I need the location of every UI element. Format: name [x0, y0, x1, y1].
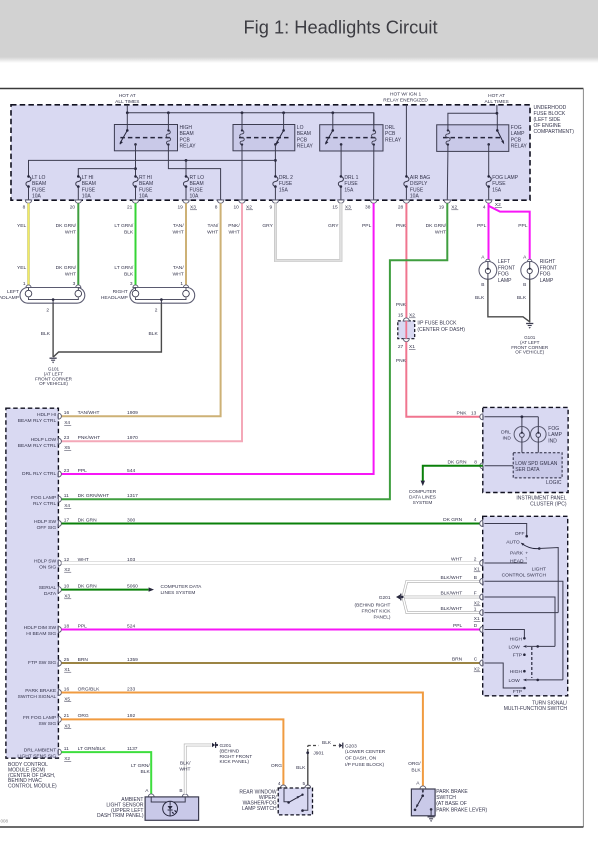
- right front fog lamp LP4: [521, 255, 557, 288]
- svg-text:008: 008: [1, 819, 9, 824]
- svg-text:DK GRN/: DK GRN/: [56, 223, 77, 229]
- switch label: [504, 700, 568, 712]
- svg-text:BLK/WHT: BLK/WHT: [440, 606, 462, 612]
- svg-text:LT GRN/: LT GRN/: [131, 763, 150, 769]
- svg-text:9: 9: [270, 205, 273, 211]
- wire BLK: right fog lamp to G101: [529, 279, 531, 322]
- svg-text:PPL: PPL: [78, 623, 88, 629]
- svg-text:YEL: YEL: [17, 265, 27, 271]
- light control switch internals: [484, 524, 558, 613]
- svg-text:PARK: PARK: [510, 550, 524, 556]
- svg-text:FOG LAMP: FOG LAMP: [31, 495, 56, 501]
- wire: IPC pin8 to logic box: [485, 465, 514, 467]
- svg-text:544: 544: [127, 468, 135, 474]
- svg-text:MULTI-FUNCTION SWITCH: MULTI-FUNCTION SWITCH: [504, 706, 568, 712]
- label BLK (right headlamp): [149, 331, 159, 337]
- I/P fuse block pin labels: [398, 313, 416, 351]
- left headlamp label: [0, 289, 19, 301]
- fuse F-DRL2 FUSE 15A: [273, 175, 293, 200]
- svg-text:DASH TRIM PANEL): DASH TRIM PANEL): [97, 813, 144, 819]
- svg-text:LOGIC: LOGIC: [546, 480, 562, 486]
- svg-text:YEL: YEL: [17, 223, 27, 229]
- svg-text:PPL: PPL: [453, 623, 463, 629]
- svg-text:25: 25: [64, 657, 70, 663]
- wire BLK: rear switch pin 5 up to J901: [307, 746, 309, 786]
- wire BLK/WHT: sensor pin B to G201: [185, 745, 211, 794]
- G203 text: [345, 743, 386, 768]
- junction J901: [306, 751, 324, 757]
- svg-text:HEADLAMP: HEADLAMP: [0, 295, 19, 301]
- fuse block pin sockets: [25, 200, 492, 203]
- svg-text:FOG: FOG: [498, 272, 509, 278]
- svg-text:FOG LAMP: FOG LAMP: [492, 175, 519, 181]
- wire BLK: right headlamp pin2 to G101: [53, 303, 161, 357]
- BCM pin sockets and labels: [17, 410, 138, 762]
- svg-text:10: 10: [64, 583, 70, 589]
- svg-text:G201: G201: [379, 595, 391, 601]
- svg-text:BEAM: BEAM: [190, 181, 204, 187]
- bus wire: hot-at-all-times bus (left): [126, 105, 374, 130]
- rear window wiper/washer/fog lamp switch S3 (dashed box): [278, 781, 313, 815]
- svg-text:2: 2: [155, 308, 158, 314]
- svg-text:HIGH: HIGH: [180, 125, 193, 131]
- svg-text:1317: 1317: [127, 493, 138, 499]
- svg-text:LEFT: LEFT: [7, 289, 19, 295]
- wire: fog contact to fog lamp fuse: [488, 151, 490, 176]
- svg-text:DRL AMBIENT: DRL AMBIENT: [24, 748, 56, 754]
- turn signal / multi-function switch S1 (dashed box): [483, 516, 568, 696]
- svg-text:DRL: DRL: [385, 125, 395, 131]
- svg-text:HI BEAM SIG: HI BEAM SIG: [26, 631, 56, 637]
- svg-text:10A: 10A: [32, 194, 42, 200]
- svg-text:4: 4: [474, 517, 477, 523]
- svg-text:GRY: GRY: [262, 223, 273, 229]
- svg-text:HEADLAMP: HEADLAMP: [101, 295, 128, 301]
- wire: DRL relay contact to DRL 1 fuse: [340, 151, 342, 176]
- svg-text:LIGHT: LIGHT: [532, 567, 546, 573]
- wire W5 TAN/WHT: pin 8 to BCM pin 16 (HDLP HI BEAM RLY CTRL): [62, 203, 221, 416]
- svg-text:4: 4: [278, 781, 281, 787]
- svg-text:FUSE: FUSE: [32, 187, 46, 193]
- svg-text:HOT AT: HOT AT: [488, 93, 505, 99]
- wire: high-beam coil to pin 8: [168, 151, 220, 200]
- svg-text:BEAM RLY CTRL: BEAM RLY CTRL: [18, 418, 57, 424]
- svg-text:BLK/WHT: BLK/WHT: [440, 591, 462, 597]
- svg-text:DK GRN/: DK GRN/: [56, 265, 77, 271]
- svg-text:PNK/WHT: PNK/WHT: [78, 435, 101, 441]
- label LT GRN/BLK (lower): [114, 265, 134, 277]
- svg-text:PCB: PCB: [511, 137, 522, 143]
- wire W7 GRY: DRL2 pin 9 to DRL1 pin 15: [275, 203, 341, 260]
- svg-text:5060: 5060: [127, 583, 138, 589]
- svg-text:RLY CTRL: RLY CTRL: [33, 501, 56, 507]
- feed label: HOT AT ALL TIMES (right): [484, 93, 508, 105]
- svg-text:BLK/WHT: BLK/WHT: [440, 575, 462, 581]
- svg-text:WHT: WHT: [435, 229, 446, 235]
- svg-text:LIGHT SENS SIG: LIGHT SENS SIG: [17, 754, 56, 760]
- svg-text:ALL TIMES: ALL TIMES: [115, 99, 139, 105]
- svg-text:FOG: FOG: [511, 125, 522, 131]
- svg-text:LAMP: LAMP: [511, 131, 525, 137]
- fuse F-RTLO BEAM FUSE 10A: [183, 175, 204, 200]
- svg-text:OF DASH, ON: OF DASH, ON: [345, 756, 377, 762]
- svg-text:LAMP: LAMP: [498, 278, 512, 284]
- svg-text:BRN: BRN: [452, 657, 463, 663]
- svg-text:RIGHT: RIGHT: [540, 259, 556, 265]
- fuse F-AIRBAG DISPLY FUSE 10A: [404, 175, 430, 200]
- label BLK/WHT (sensor): [179, 761, 191, 773]
- svg-text:RIGHT: RIGHT: [113, 289, 128, 295]
- svg-text:38: 38: [365, 205, 371, 211]
- svg-text:BLK: BLK: [41, 331, 51, 337]
- svg-text:AUTO: AUTO: [506, 539, 520, 545]
- label BLK (rear switch): [296, 765, 306, 771]
- svg-text:DRL: DRL: [501, 429, 511, 435]
- title: Fig 1: Headlights Circuit: [243, 17, 437, 38]
- label BLK (left fog): [475, 295, 485, 301]
- svg-text:RT HI: RT HI: [139, 175, 152, 181]
- svg-text:(BEHIND: (BEHIND: [220, 748, 240, 754]
- wire W16 DK GRN: BCM 10 serial data to computer data lines: [62, 584, 203, 596]
- svg-text:PCB: PCB: [180, 137, 191, 143]
- svg-text:8: 8: [474, 459, 477, 465]
- svg-text:HOT W/ IGN 1: HOT W/ IGN 1: [390, 92, 421, 98]
- svg-text:PCB: PCB: [297, 137, 308, 143]
- svg-text:WHT: WHT: [229, 229, 240, 235]
- svg-text:11: 11: [64, 746, 69, 752]
- svg-text:PNK/: PNK/: [228, 223, 240, 229]
- IPC LOGIC box: [513, 453, 562, 486]
- svg-text:5: 5: [303, 781, 306, 787]
- svg-text:PPL: PPL: [78, 468, 88, 474]
- svg-text:D: D: [474, 623, 478, 629]
- svg-text:FRONT KICK: FRONT KICK: [362, 609, 392, 615]
- svg-text:LAMP: LAMP: [548, 432, 562, 438]
- svg-text:15A: 15A: [492, 187, 502, 193]
- header bar: [0, 0, 598, 63]
- label GRY (left): [262, 223, 273, 229]
- relay K3 DRL PCB RELAY: [320, 113, 402, 151]
- svg-text:16: 16: [64, 410, 70, 416]
- label PPL (pin38): [362, 223, 372, 229]
- label TAN/WHT (upper): [173, 223, 185, 235]
- svg-text:BLK: BLK: [141, 769, 151, 775]
- label BLK (right fog): [517, 295, 527, 301]
- svg-text:LOW: LOW: [509, 644, 521, 650]
- G201 text: [355, 595, 392, 621]
- svg-text:19: 19: [177, 205, 183, 211]
- wire: lo-beam coil to pin 10: [241, 151, 243, 200]
- svg-text:GRY: GRY: [328, 223, 339, 229]
- svg-text:TAN/: TAN/: [173, 223, 184, 229]
- indicator lamp DRL IND: [501, 427, 530, 443]
- svg-text:PNK: PNK: [396, 358, 407, 364]
- rear window switch label: [239, 790, 277, 812]
- svg-text:FUSE: FUSE: [410, 187, 424, 193]
- ground reference G201 (sensor) symbol: [212, 742, 218, 748]
- svg-text:I/P FUSE BLOCK: I/P FUSE BLOCK: [417, 321, 457, 327]
- svg-text:HOT AT: HOT AT: [119, 93, 136, 99]
- svg-text:(BEHIND RIGHT: (BEHIND RIGHT: [355, 603, 391, 609]
- svg-text:BRN: BRN: [78, 657, 89, 663]
- svg-text:FOG: FOG: [548, 426, 559, 432]
- svg-text:(CENTER OF DASH): (CENTER OF DASH): [417, 327, 465, 333]
- label PPL (left fog): [477, 223, 487, 229]
- dimmer group 1 (high/low/ftp): [484, 630, 555, 659]
- svg-text:G201: G201: [220, 743, 232, 749]
- body control module BCM (dashed box): [6, 408, 59, 758]
- dashed BLK jumper to G203: [308, 740, 339, 746]
- svg-text:B: B: [179, 788, 182, 794]
- svg-text:LINES SYSTEM: LINES SYSTEM: [161, 590, 196, 596]
- svg-text:192: 192: [127, 713, 135, 719]
- label PPL (right fog): [518, 223, 528, 229]
- svg-text:WHT: WHT: [173, 271, 184, 277]
- svg-text:1359: 1359: [127, 657, 138, 663]
- svg-text:1137: 1137: [127, 746, 138, 752]
- wire W6 PNK/WHT: pin 10 to BCM pin 23 (HDLP LOW BEAM RLY CTRL): [62, 203, 243, 441]
- svg-text:FUSE: FUSE: [279, 181, 293, 187]
- svg-text:HIGH: HIGH: [510, 636, 523, 642]
- I/P fuse block U2 (small dashed box): [398, 318, 415, 342]
- svg-text:SW SIG: SW SIG: [39, 721, 57, 727]
- svg-text:BEAM: BEAM: [82, 181, 96, 187]
- feed label: HOT W/ IGN 1 RELAY ENERGIZED: [383, 92, 428, 104]
- svg-text:10A: 10A: [82, 194, 92, 200]
- svg-text:BLK: BLK: [296, 765, 306, 771]
- label TAN/WHT (lower): [173, 265, 185, 277]
- svg-text:SER DATA: SER DATA: [515, 467, 540, 473]
- svg-text:20: 20: [70, 205, 76, 211]
- label LT GRN/BLK (sensor): [131, 763, 151, 775]
- wire W19 ORG/BLK: BCM 16 to park brake switch (233): [62, 693, 423, 787]
- svg-text:PPL: PPL: [362, 223, 372, 229]
- label BLK (left headlamp): [41, 331, 51, 337]
- wire W14 DK GRN: BCM 17 to light switch pin 4 (HDLP SW OFF SIG): [62, 523, 483, 525]
- park brake switch label: [436, 789, 487, 814]
- svg-text:DK GRN/WHT: DK GRN/WHT: [78, 493, 110, 499]
- svg-text:BLK: BLK: [124, 229, 134, 235]
- svg-text:1: 1: [180, 281, 183, 287]
- fuse F-RTHI BEAM FUSE 10A: [133, 175, 153, 200]
- svg-text:BLK: BLK: [322, 740, 332, 746]
- svg-text:10A: 10A: [190, 194, 200, 200]
- ambient light sensor U4: [145, 788, 199, 820]
- wire W2 DK GRN/WHT: pin 20 to left headlamp pin 3: [77, 203, 79, 287]
- IPC label: [516, 496, 566, 508]
- underhood fuse block label: [534, 105, 575, 135]
- svg-text:IND: IND: [548, 438, 557, 444]
- G201 (sensor) text: [220, 743, 253, 765]
- svg-text:FTP: FTP: [513, 689, 522, 695]
- svg-text:8: 8: [23, 205, 26, 211]
- svg-text:COMPARTMENT): COMPARTMENT): [534, 129, 575, 135]
- bus wire: hot-at-all-times bus (right, fog): [448, 105, 498, 131]
- svg-text:↑: ↑: [525, 556, 528, 562]
- fuse F-LTLO BEAM FUSE 10A: [26, 175, 46, 200]
- label PNK (below ip fuse): [396, 358, 407, 364]
- svg-text:3: 3: [73, 281, 76, 287]
- label GRY (right): [328, 223, 339, 229]
- right headlamp LP2: [130, 281, 195, 313]
- svg-text:LOW: LOW: [509, 678, 521, 684]
- label PNK/WHT (pin10): [228, 223, 240, 235]
- svg-text:DATA LINES: DATA LINES: [409, 495, 436, 501]
- wire W13 DK GRN: IPC pin 8 serial data to computer data lines: [409, 466, 483, 506]
- svg-text:CLUSTER (IPC): CLUSTER (IPC): [530, 502, 567, 508]
- svg-text:BEAM RLY CTRL: BEAM RLY CTRL: [18, 443, 57, 449]
- label ORG (rear switch): [271, 763, 282, 769]
- relay K2 LO BEAM PCB RELAY: [233, 113, 313, 151]
- svg-text:OFF: OFF: [515, 531, 525, 537]
- svg-text:RIGHT FRONT: RIGHT FRONT: [220, 754, 253, 760]
- svg-text:CONTROL SWITCH: CONTROL SWITCH: [502, 573, 547, 579]
- svg-text:PARK BRAKE LEVER): PARK BRAKE LEVER): [436, 807, 487, 813]
- svg-text:DISPLY: DISPLY: [410, 181, 428, 187]
- svg-text:1909: 1909: [127, 410, 138, 416]
- svg-text:27: 27: [398, 344, 404, 350]
- wire W18 BRN: BCM 25 to switch pin C (FTP SW SIG): [62, 662, 483, 664]
- svg-text:ORG: ORG: [78, 713, 89, 719]
- fuse block pin numbers: [23, 202, 502, 210]
- label DK GRN/WHT (fog coil): [426, 223, 447, 235]
- underhood fuse block U1 (dashed box): [11, 105, 530, 200]
- ground reference G203 symbol: [339, 743, 343, 749]
- wire W12 PNK: I/P fuse pin 27 to IPC pin 13: [406, 342, 483, 417]
- svg-text:WHT: WHT: [451, 557, 462, 563]
- svg-text:DK GRN: DK GRN: [78, 583, 97, 589]
- svg-text:17: 17: [64, 517, 70, 523]
- svg-text:FR FOG LAMP: FR FOG LAMP: [23, 715, 56, 721]
- svg-text:3: 3: [130, 281, 133, 287]
- svg-text:15: 15: [398, 313, 404, 319]
- IPC internal feed wire: [485, 415, 539, 426]
- svg-text:ORG/BLK: ORG/BLK: [78, 686, 100, 692]
- svg-text:LOW SPD GMLAN: LOW SPD GMLAN: [515, 461, 558, 467]
- svg-text:FUSE: FUSE: [492, 181, 506, 187]
- svg-text:OF VEHICLE): OF VEHICLE): [39, 381, 68, 386]
- svg-text:Fig 1: Headlights Circuit: Fig 1: Headlights Circuit: [243, 17, 437, 38]
- svg-text:B: B: [523, 282, 526, 288]
- svg-text:28: 28: [398, 205, 404, 211]
- wire W17 PPL: BCM 18 to switch pin D (HDLP DIM SW HI BEAM SIG): [62, 629, 483, 631]
- svg-text:I/P FUSE BLOCK): I/P FUSE BLOCK): [345, 762, 384, 768]
- svg-text:B: B: [474, 575, 477, 581]
- svg-text:FUSE: FUSE: [190, 187, 204, 193]
- feed label: HOT AT ALL TIMES (left): [115, 93, 139, 105]
- svg-text:FRONT: FRONT: [498, 265, 515, 271]
- wire: DRL coil to pin 38: [373, 151, 375, 200]
- svg-text:FOG: FOG: [540, 272, 551, 278]
- svg-text:8: 8: [215, 205, 218, 211]
- svg-text:21: 21: [64, 713, 70, 719]
- wire: high-beam relay contact to RT/LT HI fuses: [78, 151, 137, 177]
- ambient light sensor label: [97, 797, 144, 819]
- wire: fog coil to pin 19: [446, 151, 449, 200]
- svg-text:LT LO: LT LO: [32, 175, 46, 181]
- ground G101 (headlamps): [35, 358, 73, 386]
- svg-text:RELAY ENERGIZED: RELAY ENERGIZED: [383, 97, 428, 103]
- svg-text:LT GRN/BLK: LT GRN/BLK: [78, 746, 107, 752]
- svg-text:RELAY: RELAY: [385, 137, 402, 143]
- label LT GRN/BLK (upper): [114, 223, 134, 235]
- wire BLK: left headlamp pin2 to G101: [52, 303, 54, 357]
- label PNK (pin28 upper): [396, 223, 407, 229]
- svg-text:10: 10: [233, 205, 239, 211]
- svg-text:KICK PANEL): KICK PANEL): [220, 759, 250, 765]
- svg-text:F: F: [474, 591, 477, 597]
- svg-text:BLK/: BLK/: [180, 761, 191, 767]
- IPC pin 13 socket: [456, 410, 482, 419]
- wire W8 PPL: pin 38 (DRL coil) to BCM pin 23 (DRL RLY CTRL): [62, 203, 374, 474]
- svg-text:HDLP LOW: HDLP LOW: [31, 437, 57, 443]
- svg-text:OFF SIG: OFF SIG: [37, 525, 57, 531]
- svg-text:15: 15: [332, 205, 338, 211]
- svg-text:DATA: DATA: [44, 591, 57, 597]
- svg-text:DK GRN: DK GRN: [78, 517, 97, 523]
- svg-text:15A: 15A: [344, 187, 354, 193]
- svg-text:11: 11: [64, 493, 69, 499]
- svg-text:HDLP DIM SW: HDLP DIM SW: [24, 625, 57, 631]
- svg-text:DK GRN: DK GRN: [447, 459, 466, 465]
- svg-text:COMPUTER: COMPUTER: [409, 489, 437, 495]
- svg-text:23: 23: [64, 435, 70, 441]
- svg-text:233: 233: [127, 686, 135, 692]
- left headlamp LP1: [20, 281, 85, 313]
- svg-text:RELAY: RELAY: [297, 144, 314, 150]
- IPC pin 8 socket: [447, 459, 482, 468]
- svg-text:G203: G203: [345, 743, 357, 749]
- svg-text:2: 2: [46, 308, 49, 314]
- svg-text:HDLP SW: HDLP SW: [34, 519, 57, 525]
- svg-text:1: 1: [23, 281, 26, 287]
- svg-text:PNK: PNK: [396, 302, 407, 308]
- svg-text:LT GRN/: LT GRN/: [114, 223, 133, 229]
- svg-text:ALL TIMES: ALL TIMES: [484, 99, 508, 105]
- svg-text:PANEL): PANEL): [374, 615, 391, 621]
- svg-text:LEFT: LEFT: [498, 259, 510, 265]
- ground G101 (fog lamps): [511, 324, 549, 355]
- svg-text:18: 18: [64, 623, 70, 629]
- svg-text:PPL: PPL: [518, 223, 528, 229]
- svg-text:WHT: WHT: [173, 229, 184, 235]
- left front fog lamp LP3: [479, 255, 515, 288]
- page number 008: [1, 819, 9, 824]
- svg-text:BLK: BLK: [124, 271, 134, 277]
- svg-text:BEAM: BEAM: [139, 181, 153, 187]
- svg-text:PCB: PCB: [385, 131, 396, 137]
- dimmer group 2 (high/low/ftp): [484, 663, 563, 695]
- svg-text:2: 2: [474, 557, 477, 563]
- svg-text:ORG: ORG: [271, 763, 282, 769]
- svg-text:524: 524: [127, 623, 135, 629]
- svg-text:ORG/: ORG/: [408, 761, 421, 767]
- svg-text:1970: 1970: [127, 435, 138, 441]
- wire W10 DK GRN/WHT: fog relay pin 19 to BCM pin 11 (FOG LAMP RLY CTRL): [62, 203, 448, 499]
- svg-text:RT LO: RT LO: [190, 175, 205, 181]
- wire: lo-beam relay contact to LT LO/RT LO fuses and DRL 2 fuse: [29, 151, 277, 177]
- label DK GRN/WHT (lower): [56, 265, 77, 277]
- svg-text:RELAY: RELAY: [180, 144, 197, 150]
- svg-text:LAMP SWITCH: LAMP SWITCH: [242, 806, 277, 812]
- instrument panel cluster U3 (dashed box): [483, 407, 568, 492]
- svg-text:(AT BASE OF: (AT BASE OF: [436, 801, 467, 807]
- svg-text:WHT: WHT: [179, 767, 190, 773]
- label TAN/WHT (pin8): [207, 223, 219, 235]
- svg-text:J901: J901: [313, 751, 324, 757]
- wire W1 YEL: pin 8 to left headlamp pin 1: [27, 203, 30, 287]
- indicator lamp FOG LAMP IND: [531, 426, 563, 445]
